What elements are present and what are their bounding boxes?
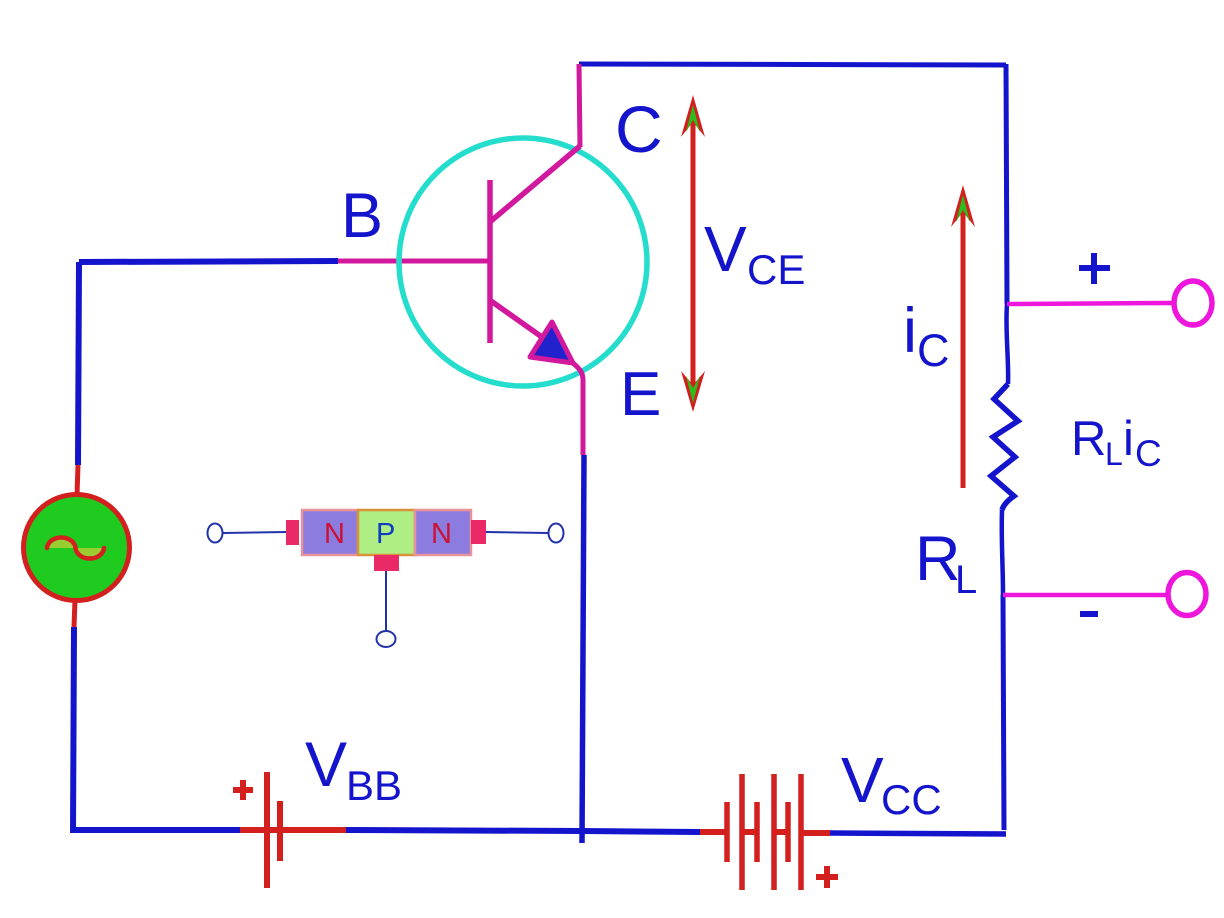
arrow VCE double-headed <box>681 95 705 412</box>
AC source sine stroke <box>47 537 104 558</box>
wire top horizontal (collector rail) <box>579 64 1006 65</box>
wire right vertical (+ node down to resistor top) <box>1006 304 1008 384</box>
NPN diagram: base lead wire <box>385 571 387 631</box>
battery VCC red lead right <box>801 830 830 836</box>
label plus output <box>1079 253 1110 284</box>
NPN diagram: right contact <box>471 520 486 544</box>
wire emitter blue vertical <box>582 455 584 843</box>
transistor Q1 emitter stroke <box>491 301 556 347</box>
wire emitter magenta (arrow to below circle) <box>573 363 583 455</box>
svg-text:V: V <box>704 213 747 285</box>
wire base magenta lead <box>338 259 490 264</box>
svg-text:i: i <box>903 296 917 366</box>
wire collector magenta (circle to top rail) <box>579 64 580 147</box>
terminal + circle <box>1174 281 1212 325</box>
svg-text:C: C <box>1135 433 1162 474</box>
AC source red lead top <box>77 465 78 495</box>
transistor Q1 body circle <box>399 138 647 386</box>
battery VCC cells <box>727 774 801 890</box>
svg-text:V: V <box>305 730 347 800</box>
svg-text:R: R <box>915 524 961 594</box>
svg-text:C: C <box>615 92 663 166</box>
svg-text:CE: CE <box>747 246 805 293</box>
wire left vertical (AC source up to top-left corner) <box>78 262 79 465</box>
svg-text:R: R <box>1071 412 1106 466</box>
battery VCC inter-cell link 2 <box>774 829 788 835</box>
wire bottom middle (VCC to emitter junction) <box>583 831 700 832</box>
NPN diagram: base terminal circle <box>377 631 396 647</box>
battery VCC red lead left <box>700 829 727 835</box>
battery VBB long plate <box>264 772 270 888</box>
svg-text:V: V <box>841 744 884 816</box>
NPN diagram: P region <box>358 510 415 555</box>
label minus output <box>1080 611 1098 617</box>
wire output + magenta <box>1007 303 1174 304</box>
arrow iC <box>951 185 975 488</box>
transistor Q1 emitter arrowhead <box>530 322 573 363</box>
wire bottom right (corner to VCC battery) <box>830 833 1006 834</box>
wire left vertical (bottom-left corner up to AC source) <box>73 627 74 833</box>
wire right vertical (top-right corner down to + node) <box>1006 64 1007 304</box>
AC source sine fill <box>47 537 104 558</box>
terminal - circle <box>1168 573 1206 616</box>
wire bottom left (VBB to bottom-left corner) <box>73 827 240 833</box>
svg-text:BB: BB <box>346 762 402 809</box>
NPN diagram: left contact <box>286 520 299 545</box>
battery VBB short plate <box>277 801 283 861</box>
NPN diagram: N region left <box>302 510 358 555</box>
svg-text:E: E <box>620 360 661 429</box>
NPN diagram: base contact <box>374 555 399 571</box>
AC source red lead bottom <box>74 600 75 627</box>
wire right vertical (resistor bottom to - node) <box>1002 510 1003 595</box>
battery VCC inter-cell link 1 <box>742 829 757 835</box>
transistor Q1 collector stroke <box>491 146 580 221</box>
wire bottom middle-left (emitter junction to VBB battery) <box>346 830 583 831</box>
AC source V1 body <box>24 495 130 601</box>
resistor RL zigzag <box>991 384 1018 510</box>
wire base horizontal blue (top-left corner to transistor) <box>79 261 338 262</box>
transistor Q1 base bar <box>487 180 493 343</box>
svg-text:P: P <box>376 518 395 550</box>
svg-text:i: i <box>1123 412 1134 466</box>
svg-text:C: C <box>917 325 950 376</box>
svg-text:N: N <box>431 518 452 550</box>
svg-text:L: L <box>1105 436 1123 472</box>
svg-text:L: L <box>955 558 977 602</box>
NPN diagram: left terminal circle <box>208 524 223 543</box>
svg-text:CC: CC <box>881 776 942 823</box>
svg-text:B: B <box>341 181 383 251</box>
NPN diagram: left lead wire <box>223 532 286 533</box>
battery VBB plus mark <box>233 780 253 800</box>
NPN diagram: N region right <box>415 510 471 555</box>
wire right vertical (- node down to bottom-right corner) <box>1003 595 1004 830</box>
NPN diagram: right terminal circle <box>549 524 564 543</box>
wire output - magenta <box>1003 593 1168 598</box>
NPN diagram: right lead wire <box>486 532 548 533</box>
svg-text:N: N <box>324 518 345 550</box>
battery VBB red lead wire <box>240 827 346 833</box>
battery VCC plus mark <box>816 866 838 888</box>
